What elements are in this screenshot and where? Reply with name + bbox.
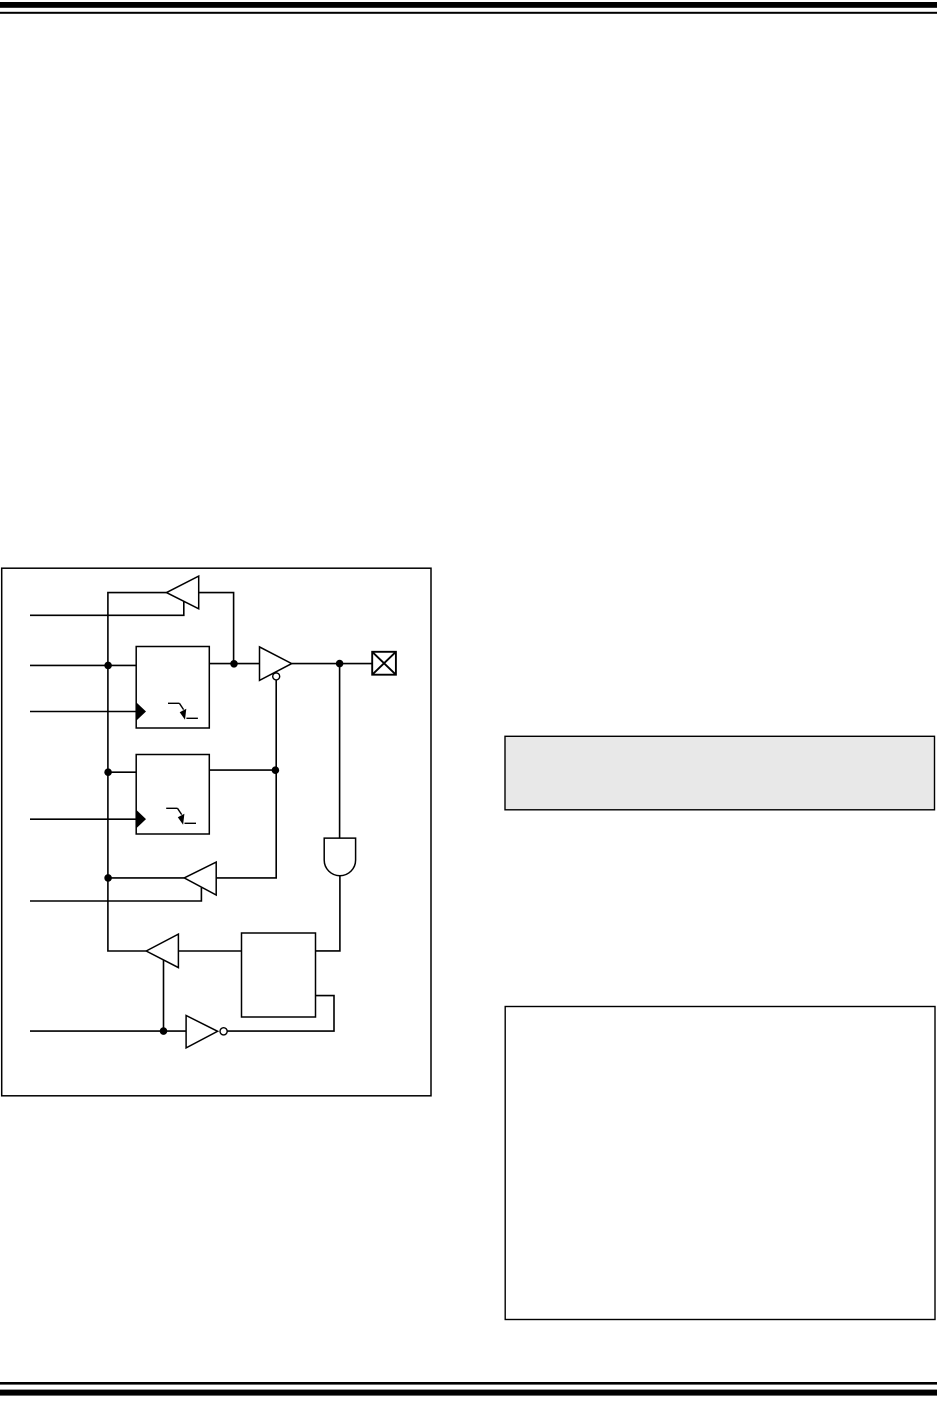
clock edge symbol latch 2	[166, 808, 196, 824]
header thick rule	[0, 2, 937, 8]
figure frame	[2, 568, 431, 1096]
wire RD PORT enable line	[30, 888, 201, 901]
wire latch read enable stub	[163, 960, 165, 1032]
header thin rule	[0, 12, 937, 14]
latch DATA (lower D-latch)	[136, 755, 209, 835]
wire gate output to RD latch	[316, 876, 340, 951]
wire data latch Q output	[209, 769, 276, 771]
wire TMR0 clock input line	[30, 1030, 186, 1032]
footer thin rule	[0, 1382, 937, 1385]
footer thick rule	[0, 1390, 937, 1396]
inverter TMR0 (right-pointing with bubble)	[186, 1016, 218, 1048]
Schmitt trigger input gate (down-pointing)	[324, 838, 355, 876]
junction dot TMR0 line	[160, 1027, 168, 1035]
wire RD TRIS enable line	[30, 601, 184, 615]
junction dot RD PORT bus	[104, 874, 112, 882]
I/O pin symbol	[372, 652, 396, 675]
wire latch read buffer input	[178, 950, 241, 952]
junction dot data Q / control	[272, 766, 280, 774]
wire WR TRIS clock line	[30, 711, 136, 713]
wire inverter output to latch box	[227, 996, 334, 1032]
wire pin to input gate	[339, 664, 341, 839]
junction dot pin node	[336, 660, 344, 668]
inverter output bubble	[220, 1028, 227, 1035]
clock input triangle latch 2	[136, 810, 146, 829]
junction dot bus-to-TRIS-D	[104, 662, 112, 670]
output driver tri-state buffer	[260, 647, 292, 681]
clock edge symbol latch 1	[168, 703, 198, 719]
junction dot bus-to-DATA-D	[104, 768, 112, 776]
latch RD PORT box	[242, 933, 316, 1017]
wire data bus to latch D input	[30, 664, 136, 666]
wire buffer input from TRIS latch output	[199, 593, 234, 664]
wire RD PORT buffer output to bus	[108, 877, 184, 879]
example box	[505, 1007, 935, 1320]
clock input triangle latch 1	[136, 702, 146, 721]
tri-state enable bubble	[273, 673, 280, 680]
buffer latch read (lower, left-pointing)	[146, 934, 178, 968]
wire latch Q output to output driver	[209, 663, 259, 665]
buffer RD TRIS (top, left-pointing)	[167, 576, 199, 609]
wire WR PORT clock line	[30, 818, 136, 820]
wire data bus vertical	[108, 593, 167, 951]
junction dot TRIS Q feedback	[230, 660, 238, 668]
wire driver output to pin	[292, 663, 373, 665]
latch TRIS (upper D-latch)	[136, 647, 209, 729]
wire tri-state control vertical	[216, 680, 276, 878]
buffer RD PORT (middle, left-pointing)	[184, 862, 216, 895]
shaded note box	[505, 736, 935, 810]
wire data bus to data latch D input	[108, 771, 136, 773]
